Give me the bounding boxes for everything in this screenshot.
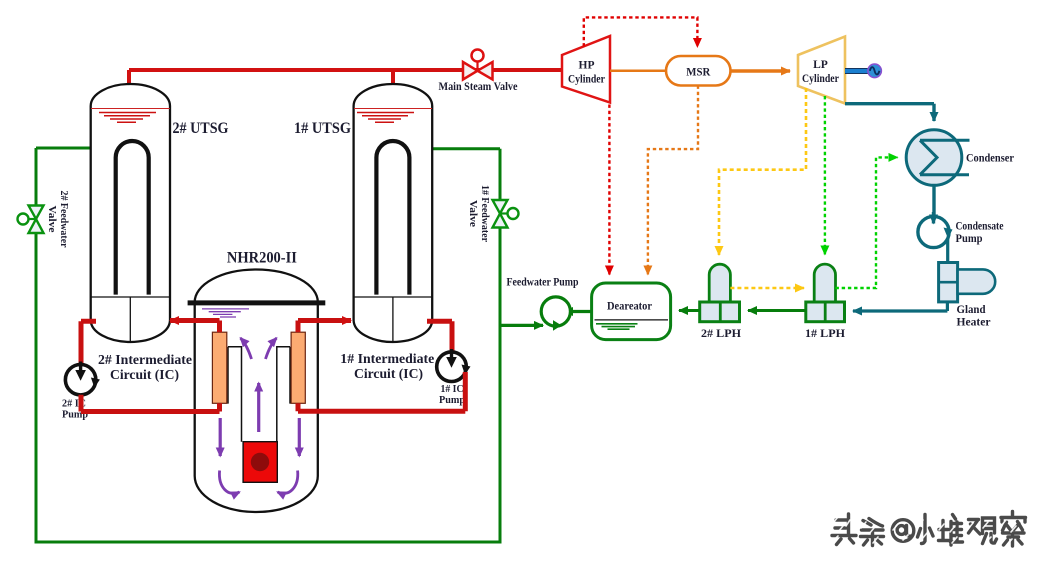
pump 2# IC Pump [65, 362, 100, 395]
svg-text:HP: HP [579, 60, 595, 72]
valve 2# Feedwater Valve [18, 206, 44, 234]
pipe 1# IC cold leg upper [427, 321, 452, 352]
valve Main Steam Valve [463, 50, 493, 80]
vessel Deaerator [592, 283, 671, 340]
label 1# IC Pump [439, 384, 465, 406]
svg-text:Pump: Pump [439, 395, 465, 406]
wire feedwater left vertical [35, 148, 38, 542]
svg-text:Condensate: Condensate [956, 221, 1004, 233]
dashed LP extraction to 2# LPH [719, 88, 806, 255]
svg-text:1# Feedwater: 1# Feedwater [479, 185, 490, 242]
label Condenser [966, 153, 1014, 165]
label 2# LPH [701, 328, 741, 340]
label Deareator [607, 299, 653, 313]
generator shaft [845, 68, 868, 74]
label 2# Feedwater Valve [46, 191, 69, 248]
dashed HP steam extraction to MSR [584, 17, 698, 47]
pipe 1# IC hot leg [298, 321, 351, 333]
vessel 2# UTSG [91, 84, 170, 342]
wire condenser to condensate pump [932, 185, 935, 216]
wire HP to MSR [610, 70, 666, 73]
svg-text:2# Feedwater: 2# Feedwater [58, 191, 69, 248]
pump Feedwater Pump [541, 297, 570, 331]
wire LP exhaust to condenser [845, 104, 934, 121]
wire 2# LPH to deaerator [679, 309, 700, 312]
flow arrow bottom right curve [278, 471, 298, 494]
heater Gland Heater [939, 263, 996, 302]
label NHR200-II [227, 250, 297, 267]
svg-text:Cylinder: Cylinder [568, 74, 605, 86]
label 1# Intermediate Circuit [340, 351, 434, 381]
pipe 2# IC cold leg lower [81, 395, 220, 412]
turbine HP Cylinder [562, 36, 610, 103]
svg-text:Valve: Valve [46, 206, 57, 233]
pump Condensate Pump [918, 212, 953, 248]
flow arrow top right curve [266, 338, 277, 359]
dashed MSR drain to deaerator [648, 86, 698, 275]
svg-text:Main Steam Valve: Main Steam Valve [439, 81, 518, 93]
label 2# IC Pump [62, 399, 88, 421]
watermark highlight hatch [833, 517, 1016, 545]
reactor NHR200-II dome [195, 270, 318, 303]
dashed 1# LPH vent to condenser [836, 157, 898, 288]
reactor water level [202, 309, 249, 317]
label Feedwater Pump [507, 275, 579, 289]
turbine LP Cylinder [798, 37, 845, 104]
vessel MSR [666, 56, 731, 86]
svg-text:Cylinder: Cylinder [802, 73, 839, 85]
label LP Cylinder [802, 59, 839, 85]
wire deaerator to feedwater pump [564, 310, 592, 313]
svg-text:2# LPH: 2# LPH [701, 328, 741, 340]
label 1# UTSG [294, 120, 351, 137]
wire MSR to LP [731, 69, 791, 72]
svg-text:Circuit (IC): Circuit (IC) [110, 367, 179, 382]
svg-text:Deareator: Deareator [607, 299, 653, 313]
valve 1# Feedwater Valve [493, 200, 519, 228]
svg-text:Gland: Gland [957, 304, 987, 316]
svg-text:MSR: MSR [686, 65, 710, 79]
condenser [906, 130, 969, 186]
heater 2# LPH [700, 264, 740, 322]
reactor core [243, 442, 277, 483]
label 2# Intermediate Circuit [98, 352, 192, 382]
svg-text:1# LPH: 1# LPH [805, 328, 845, 340]
svg-text:1# Intermediate: 1# Intermediate [340, 351, 434, 366]
label Main Steam Valve [439, 81, 518, 93]
dashed HP drain to deaerator [608, 105, 610, 275]
label 1# Feedwater Valve [467, 185, 490, 242]
watermark toutiao [832, 512, 1026, 547]
svg-text:Circuit (IC): Circuit (IC) [354, 366, 423, 381]
svg-text:Valve: Valve [467, 200, 478, 227]
svg-text:Condenser: Condenser [966, 153, 1014, 165]
wire gland heater to 1# LPH [853, 302, 947, 311]
wire feedwater right vertical [499, 149, 502, 544]
pipe 1# IC cold leg lower [298, 372, 465, 411]
label Condensate Pump [956, 221, 1004, 246]
svg-text:LP: LP [813, 59, 828, 71]
svg-text:1# IC: 1# IC [441, 384, 464, 395]
flow arrow riser up [257, 383, 260, 432]
dashed LP extraction to 1# LPH [824, 96, 826, 255]
vessel 1# UTSG [354, 84, 433, 342]
pipe 2# IC cold leg upper [81, 321, 96, 364]
generator [868, 64, 882, 78]
wire 1# LPH to 2# LPH [748, 309, 806, 312]
reactor vessel body [195, 302, 318, 512]
svg-text:2# Intermediate: 2# Intermediate [98, 352, 192, 367]
wire feedwater into 1# UTSG [432, 147, 500, 150]
wire feedwater bottom [35, 541, 501, 544]
dashed 2# LPH to 1# LPH [730, 287, 804, 290]
label 1# LPH [805, 328, 845, 340]
reactor shroud [228, 347, 290, 442]
flow arrow top left curve [241, 338, 252, 359]
flow arrow downcomer right [298, 418, 301, 456]
svg-text:2# UTSG: 2# UTSG [173, 120, 229, 137]
heat exchanger 1# IC HX [291, 332, 305, 403]
svg-text:Feedwater Pump: Feedwater Pump [507, 275, 579, 289]
reactor flange [188, 300, 326, 305]
svg-text:Pump: Pump [956, 233, 983, 245]
wire main steam header [129, 70, 562, 86]
svg-text:NHR200-II: NHR200-II [227, 250, 297, 267]
wire feedwater into 2# UTSG [36, 147, 91, 150]
heater 1# LPH [806, 264, 845, 322]
flow arrow bottom left curve [219, 471, 239, 494]
flow arrow downcomer left [219, 418, 222, 456]
wire condensate pump to gland heater [946, 238, 949, 263]
label MSR [686, 65, 710, 79]
label Gland Heater [957, 304, 991, 329]
svg-text:1# UTSG: 1# UTSG [294, 120, 351, 137]
label HP Cylinder [568, 60, 605, 86]
pump 1# IC Pump [437, 349, 471, 382]
label 2# UTSG [173, 120, 229, 137]
wire feedwater pump discharge [500, 324, 543, 327]
pipe 2# IC hot leg [170, 321, 220, 333]
heat exchanger 2# IC HX [212, 332, 226, 403]
svg-text:Heater: Heater [957, 317, 991, 329]
